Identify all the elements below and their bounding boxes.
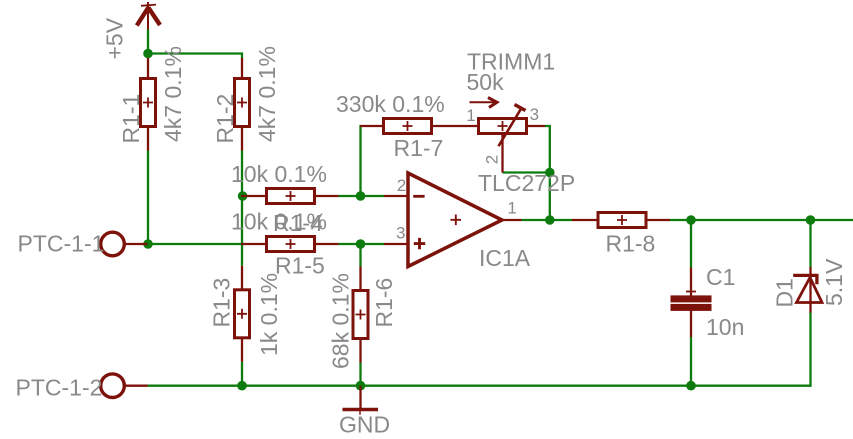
svg-text:2: 2 [482, 155, 501, 164]
svg-text:10n: 10n [706, 314, 744, 340]
svg-text:C1: C1 [706, 264, 735, 290]
svg-text:R1-1: R1-1 [118, 94, 144, 144]
svg-text:50k: 50k [467, 69, 505, 95]
svg-text:R1-5: R1-5 [275, 253, 325, 279]
svg-text:IC1A: IC1A [479, 245, 531, 271]
svg-text:68k 0.1%: 68k 0.1% [328, 273, 354, 369]
svg-text:R1-6: R1-6 [371, 278, 397, 328]
svg-text:1k 0.1%: 1k 0.1% [256, 273, 282, 356]
svg-text:1: 1 [466, 106, 475, 125]
svg-text:R1-4: R1-4 [273, 210, 323, 236]
svg-text:D1: D1 [772, 278, 798, 307]
svg-text:PTC-1-1: PTC-1-1 [18, 231, 105, 257]
svg-text:5.1V: 5.1V [821, 258, 847, 306]
svg-text:3: 3 [396, 224, 405, 243]
svg-text:4k7 0.1%: 4k7 0.1% [254, 46, 280, 142]
svg-text:3: 3 [530, 105, 539, 124]
svg-text:R1-7: R1-7 [394, 135, 444, 161]
svg-text:GND: GND [339, 412, 390, 438]
svg-text:R1-8: R1-8 [606, 230, 656, 256]
svg-text:10k 0.1%: 10k 0.1% [231, 161, 327, 187]
svg-text:R1-3: R1-3 [209, 278, 235, 328]
svg-text:1: 1 [507, 199, 516, 218]
svg-text:4k7 0.1%: 4k7 0.1% [160, 46, 186, 142]
svg-text:TLC272P: TLC272P [478, 170, 575, 196]
svg-text:2: 2 [397, 176, 406, 195]
svg-text:330k 0.1%: 330k 0.1% [336, 91, 445, 117]
svg-text:+5V: +5V [102, 17, 128, 59]
svg-text:R1-2: R1-2 [212, 94, 238, 144]
svg-text:PTC-1-2: PTC-1-2 [16, 374, 103, 400]
